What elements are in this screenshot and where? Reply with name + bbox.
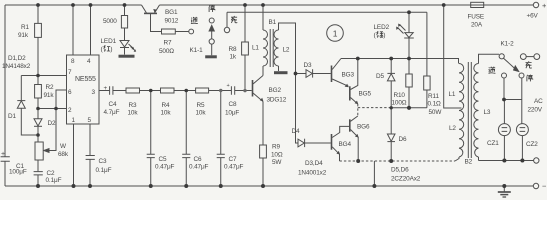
wire: L3 bottom output line (479, 160, 534, 162)
capacitor C3 (86, 156, 95, 187)
label L3 B2 (484, 109, 491, 116)
svg-text:CZ1: CZ1 (487, 140, 499, 147)
resistor 5000 for LED1 (121, 5, 127, 40)
svg-text:1N4148x2: 1N4148x2 (2, 63, 31, 70)
label CZ2 (526, 141, 538, 148)
wire: pin2 line (38, 108, 67, 110)
resistor R10 (406, 59, 412, 88)
svg-text:+6V: +6V (527, 13, 539, 20)
svg-text:500Ω: 500Ω (159, 48, 174, 55)
svg-text:+: + (1, 151, 5, 158)
label D5,D6 2CZ20Ax2 (391, 167, 421, 183)
svg-text:C6: C6 (194, 156, 202, 163)
transistor Q5 BG5 (350, 59, 359, 105)
wire: pin7 line to D1 (21, 76, 66, 101)
svg-text:10k: 10k (196, 110, 207, 117)
label reverse char left (191, 17, 198, 24)
svg-text:LED2: LED2 (374, 24, 390, 31)
label NE555 pins (68, 58, 96, 124)
resistor R3 (126, 88, 161, 93)
svg-text:L1: L1 (449, 91, 456, 98)
label stop char right (527, 75, 533, 82)
resistor R8 (242, 5, 249, 91)
label +6V (527, 1, 547, 20)
svg-text:R11: R11 (428, 93, 439, 100)
LED LED2 green (396, 12, 414, 58)
svg-text:K1-2: K1-2 (501, 41, 515, 48)
diode D5 (387, 59, 395, 108)
label BG4 (339, 141, 352, 148)
svg-text:10Ω: 10Ω (271, 152, 283, 159)
svg-text:0.1μF: 0.1μF (46, 177, 62, 184)
switch K1-1 (209, 18, 214, 55)
svg-text:L2: L2 (449, 125, 456, 132)
resistor R1 (35, 5, 42, 76)
terminal: charge contact of K1-1 (224, 12, 229, 32)
node dots: right section (502, 98, 524, 163)
node dots: bottom rail (36, 184, 506, 188)
diode D6 (387, 108, 395, 161)
label AC 220V (528, 98, 544, 114)
diode D4 (298, 139, 331, 147)
svg-text:C3: C3 (99, 158, 107, 165)
svg-text:C4: C4 (109, 101, 117, 108)
svg-text:2: 2 (68, 107, 72, 114)
label K1-2 (501, 41, 515, 48)
svg-text:R2: R2 (46, 84, 54, 91)
transformer B1 (263, 5, 296, 74)
label D1,D2 1N4148x2 (2, 55, 31, 70)
capacitor C2 (34, 172, 43, 186)
ground at negative rail (498, 186, 511, 197)
label D3,D4 1N4001x2 (298, 160, 327, 177)
label charge char right (526, 61, 532, 68)
label LED1 (101, 38, 117, 45)
svg-text:10μF: 10μF (225, 110, 239, 117)
svg-text:20A: 20A (471, 22, 483, 29)
svg-text:): ) (383, 32, 385, 39)
label L2 B2 (449, 125, 456, 132)
label LED2 (374, 24, 390, 31)
svg-text:+: + (542, 1, 547, 10)
resistor R2 (35, 76, 42, 109)
label D5 (376, 73, 384, 80)
wire: charge line (227, 12, 427, 76)
svg-text:L2: L2 (283, 47, 290, 54)
svg-text:0.47μF: 0.47μF (189, 164, 209, 171)
wire: +6V riser to B2 centre tap (444, 5, 462, 108)
resistor R7 (162, 29, 189, 34)
IC U1 NE555 (67, 5, 100, 186)
svg-text:5: 5 (88, 117, 92, 124)
wire: bottom negative rail (5, 185, 533, 187)
wire: B2 L2 bottom bend (455, 157, 459, 161)
label D6 (399, 136, 407, 143)
wire: R10/R11 bottom bus (391, 87, 427, 108)
wire: output node dashed to D5/D6 junction (358, 107, 391, 109)
svg-text:CZ2: CZ2 (526, 141, 538, 148)
label R9 (271, 144, 283, 167)
label stop char left K1-1 (209, 5, 215, 12)
node dots: pin3 row (149, 89, 247, 93)
transformer B2 (459, 54, 499, 160)
wire: CZ node to stop contact riser (504, 78, 522, 124)
label W 68k (58, 143, 69, 158)
wire: BG5 emitter to BG6 collector (dashed) (357, 104, 359, 116)
svg-text:+: + (227, 83, 230, 89)
wire: emitter return dashed line (340, 160, 456, 162)
label L2 B1 (283, 47, 290, 54)
svg-text:220V: 220V (528, 107, 543, 114)
label C2 (46, 170, 62, 184)
svg-text:BG5: BG5 (359, 91, 372, 98)
wire: reverse contact down to CZ node (503, 78, 505, 100)
capacitor C4 (110, 86, 126, 94)
capacitor C7 (217, 91, 225, 187)
label (green) for LED2 (374, 32, 386, 39)
svg-text:100μF: 100μF (9, 169, 27, 176)
ground under B1 L2 (274, 71, 288, 74)
svg-text:BG1: BG1 (165, 9, 178, 16)
svg-text:AC: AC (534, 98, 543, 105)
marker: circled 1 (327, 25, 344, 42)
label C7 (224, 156, 244, 171)
svg-text:K1-1: K1-1 (190, 47, 204, 54)
svg-text:10k: 10k (161, 110, 172, 117)
svg-text:−: − (542, 182, 547, 191)
svg-text:NE555: NE555 (75, 76, 96, 83)
label L1 B2 (449, 91, 456, 98)
svg-text:0.47μF: 0.47μF (224, 164, 244, 171)
wire: wiper line to pot (44, 109, 56, 153)
svg-text:D1,D2: D1,D2 (8, 55, 26, 62)
label R5 (196, 102, 207, 117)
label BG5 (359, 91, 372, 98)
svg-text:R3: R3 (129, 102, 137, 109)
label R7 500ohm (159, 40, 174, 56)
label C5 (155, 156, 175, 171)
label L1 B1 (252, 45, 259, 52)
wire: left frame (4, 5, 6, 186)
potentiometer W (35, 135, 43, 171)
terminal: negative (533, 183, 538, 188)
transistor Q1 BG1 9012 (142, 5, 162, 32)
svg-text:10k: 10k (128, 110, 139, 117)
wire: return riser to negative rail (373, 161, 375, 186)
node dots: top rail (36, 3, 446, 7)
label BG3 (342, 72, 355, 79)
svg-text:FUSE: FUSE (468, 14, 485, 21)
ground under LED1 (119, 55, 135, 58)
label D3 (304, 62, 312, 69)
wire: node to D4 row (296, 74, 299, 144)
svg-text:B2: B2 (465, 159, 473, 166)
svg-text:9012: 9012 (165, 18, 179, 25)
label NE555 (75, 76, 96, 83)
label C6 (189, 156, 209, 171)
socket CZ2 (516, 124, 528, 161)
svg-text:91k: 91k (44, 92, 55, 99)
fuse FUSE 20A (471, 2, 484, 7)
svg-text:4: 4 (87, 58, 91, 65)
terminal: AC output (534, 158, 539, 163)
resistor R9 (260, 145, 267, 186)
diode D3 (296, 69, 331, 77)
transistor Q4 BG4 (332, 126, 350, 161)
svg-text:0.1Ω: 0.1Ω (428, 101, 442, 108)
label reverse char right (489, 67, 496, 74)
svg-text:R10: R10 (394, 92, 406, 99)
socket CZ1 (498, 100, 510, 161)
wire: top +6V rail (5, 4, 533, 6)
svg-text:LED1: LED1 (101, 38, 117, 45)
label R8 1k (229, 46, 237, 61)
svg-text:D3,D4: D3,D4 (305, 160, 323, 167)
svg-text:5W: 5W (272, 159, 282, 166)
svg-text:D4: D4 (292, 128, 300, 135)
svg-text:B1: B1 (269, 19, 277, 26)
svg-text:R4: R4 (162, 102, 170, 109)
svg-text:50W: 50W (429, 109, 443, 116)
label BG6 (357, 124, 370, 131)
svg-text:4.7μF: 4.7μF (104, 109, 120, 116)
svg-text:100Ω: 100Ω (392, 100, 407, 107)
capacitor C8 (231, 86, 251, 94)
LED LED1 red (120, 41, 136, 55)
label B1 (269, 19, 277, 26)
svg-text:91k: 91k (18, 32, 29, 39)
svg-text:R1: R1 (21, 24, 29, 31)
terminal: reverse contact of K1-1 (189, 29, 194, 34)
label D2 (48, 120, 56, 127)
svg-text:1N4001x2: 1N4001x2 (298, 170, 327, 177)
switch K1-2 (499, 54, 540, 78)
label BG2 3DG12 (267, 87, 287, 104)
svg-text:5000: 5000 (103, 18, 117, 25)
label C8 (225, 83, 239, 117)
label FUSE 20A (468, 14, 485, 29)
label C4 (104, 85, 120, 116)
svg-text:D5: D5 (376, 73, 384, 80)
svg-text:68k: 68k (58, 151, 69, 158)
resistor R11 (424, 76, 430, 90)
capacitor C6 (182, 91, 190, 187)
svg-text:7: 7 (68, 69, 72, 76)
label R2 (44, 84, 55, 99)
wire: pin6 jog (56, 90, 67, 109)
svg-text:1: 1 (333, 29, 338, 39)
svg-text:3: 3 (92, 89, 96, 96)
capacitor C5 (147, 91, 155, 187)
label minus terminal (542, 182, 547, 191)
node dots: driver/output (294, 10, 412, 163)
svg-text:BG6: BG6 (357, 124, 370, 131)
label charge char left (231, 16, 237, 23)
svg-text:C5: C5 (159, 156, 167, 163)
svg-text:3DG12: 3DG12 (267, 97, 287, 104)
svg-text:1k: 1k (230, 54, 237, 61)
label R11 0.1ohm 50W (428, 93, 443, 116)
svg-text:R7: R7 (164, 40, 172, 47)
svg-text:R5: R5 (197, 102, 205, 109)
svg-text:D6: D6 (399, 136, 407, 143)
label 5000 (103, 18, 117, 25)
svg-text:2CZ20Ax2: 2CZ20Ax2 (391, 176, 421, 183)
svg-text:C8: C8 (229, 101, 237, 108)
capacitor C1 (1, 157, 10, 162)
label R10 100ohm (392, 92, 407, 107)
wire: collector bus y=58.5 (341, 59, 459, 64)
svg-text:C7: C7 (229, 156, 237, 163)
diode D1 (17, 101, 38, 135)
svg-text:8: 8 (71, 58, 75, 65)
label CZ1 (487, 140, 499, 147)
label R3 (128, 102, 139, 117)
resistor R4 (161, 88, 196, 93)
svg-text:): ) (110, 46, 112, 53)
terminal: +6V (533, 2, 538, 7)
label R1 (18, 24, 29, 39)
resistor R5 (196, 88, 232, 93)
svg-text:D3: D3 (304, 62, 312, 69)
svg-text:D5,D6: D5,D6 (391, 167, 409, 174)
svg-text:+: + (104, 85, 108, 92)
label (red) for LED1 (101, 46, 113, 53)
label K1-1 (190, 47, 204, 54)
svg-text:1: 1 (72, 117, 76, 124)
svg-text:R8: R8 (229, 46, 237, 53)
transistor Q3 BG3 (332, 59, 349, 88)
label BG1 9012 (165, 9, 179, 25)
label D4 (292, 128, 300, 135)
svg-text:0.1μF: 0.1μF (96, 167, 112, 174)
svg-text:L3: L3 (484, 109, 491, 116)
svg-text:D1: D1 (8, 113, 16, 120)
svg-text:D2: D2 (48, 120, 56, 127)
svg-text:6: 6 (68, 89, 72, 96)
diode D2 (34, 109, 42, 136)
label C3 (96, 158, 112, 174)
node dots: oscillator (36, 74, 58, 137)
svg-text:BG2: BG2 (269, 87, 282, 94)
svg-text:0.47μF: 0.47μF (155, 164, 175, 171)
svg-text:C2: C2 (47, 170, 55, 177)
wire: pin3 output row (99, 90, 109, 92)
label D1 (8, 113, 16, 120)
label R4 (161, 102, 172, 117)
transistor Q2 BG2 3DG12 (253, 66, 264, 145)
label 1 in circle (333, 29, 338, 39)
ground under K1-1 (205, 55, 217, 58)
label C1 (1, 151, 27, 176)
svg-text:L1: L1 (252, 45, 259, 52)
label B2 (465, 159, 473, 166)
svg-text:R9: R9 (272, 144, 280, 151)
svg-text:BG4: BG4 (339, 141, 352, 148)
svg-text:BG3: BG3 (342, 72, 355, 79)
transistor Q6 BG6 (350, 116, 359, 161)
